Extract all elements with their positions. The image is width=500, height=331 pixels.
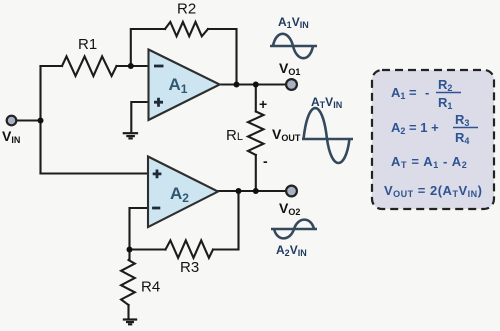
svg-text:R1: R1 [78,36,97,53]
svg-text:A2 = 1 +: A2 = 1 + [391,120,439,136]
svg-text:-: - [425,85,429,100]
svg-text:R4: R4 [141,279,160,296]
svg-text:R3: R3 [180,259,199,276]
svg-text:-: - [263,153,268,169]
svg-text:R2: R2 [177,1,196,18]
svg-text:+: + [259,96,267,112]
